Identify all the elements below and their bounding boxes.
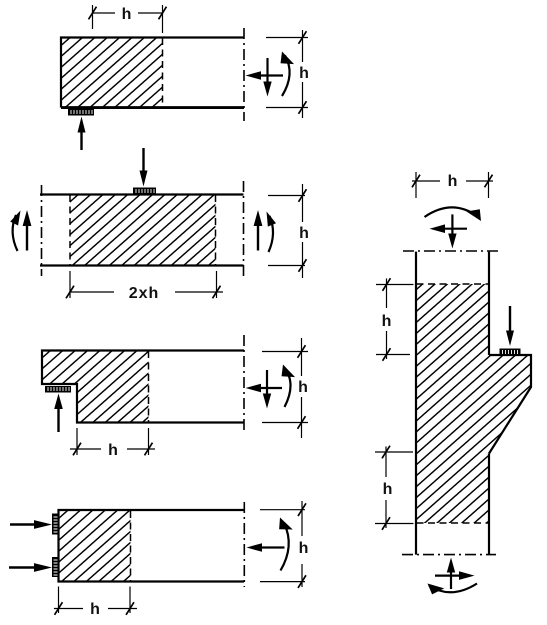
beam 2 load bearing pad	[133, 188, 156, 195]
beam 3 normal force arrow (down)	[266, 370, 268, 399]
beam 1 top dimension h: dimension line	[93, 12, 163, 14]
beam 4 bottom dimension h: ticks	[55, 602, 63, 615]
column top shear arrow (left)	[442, 228, 467, 230]
beam 3 D-region dashed boundary	[148, 351, 150, 422]
svg-text:h: h	[122, 6, 132, 23]
beam 4 right section dash-dot line	[243, 502, 245, 587]
beam 3 right dimension h: ticks	[298, 345, 306, 358]
beam 3 right dimension h: dimension line	[301, 338, 303, 438]
column top section dash-dot line	[403, 250, 499, 252]
column upper dimension h: ticks	[383, 278, 391, 291]
beam 2 right dimension h: dimension line	[302, 184, 304, 278]
beam 2 bottom dimension 2xh: dimension line	[70, 291, 223, 293]
beam 2 D-region dashed boundary left	[69, 195, 71, 265]
beam 2 outline top	[40, 193, 244, 195]
beam 4 right dimension h: dimension line	[301, 501, 303, 587]
corbel bearing pad	[500, 349, 521, 356]
beam 1 bearing pad	[68, 109, 94, 116]
beam 1 right dimension h: extension lines	[266, 38, 308, 108]
beam 1 hatched D-region	[62, 39, 162, 108]
beam 1 bearing pad ribs	[71, 110, 92, 114]
svg-text:h: h	[299, 225, 309, 242]
beam 1 bottom edge	[61, 106, 244, 109]
beam 4 bottom load arrow (right)	[9, 566, 39, 568]
svg-text:h: h	[299, 65, 309, 82]
column D-region dashed boundary top	[417, 283, 489, 285]
beam 3 bottom dimension h: extension lines	[77, 428, 149, 455]
beam 3 right dimension h: extension lines	[262, 352, 308, 423]
column top dimension h: dimension line	[412, 180, 493, 182]
beam 2 right section dash-dot line	[243, 181, 245, 280]
beam 2 right end shear arrow (up)	[257, 222, 259, 251]
column upper dimension h: extension lines	[376, 285, 414, 355]
column bottom normal force arrow (up)	[450, 568, 452, 589]
beam 3 moment curved arrow	[285, 369, 291, 407]
beam 3 bottom dimension h: ticks	[73, 443, 81, 456]
beam 4 bottom dimension h: extension lines	[59, 587, 131, 614]
beam 2 bottom dimension 2xh: ticks	[66, 286, 74, 299]
column bottom shear arrow (right)	[435, 574, 460, 576]
beam 1 right section dash-dot line	[243, 28, 245, 121]
svg-text:h: h	[90, 601, 100, 618]
beam 1 moment curved arrow	[282, 56, 290, 97]
column right edge upper	[488, 252, 490, 355]
column lower dimension h: ticks	[382, 446, 390, 459]
corbel outline	[489, 355, 531, 454]
beam 3 bearing pad ribs	[48, 387, 69, 391]
beam 1 top dimension h: tick left	[89, 7, 97, 20]
beam 2 outline bottom	[40, 264, 244, 266]
column lower dimension h: extension lines	[375, 452, 414, 524]
svg-text:h: h	[299, 540, 309, 557]
beam 4 anchor pad bottom ribs	[54, 560, 58, 575]
beam 3 shear arrow (left)	[258, 387, 282, 389]
beam 2 right dimension h: ticks	[299, 189, 307, 202]
corbel load arrow (down)	[509, 306, 511, 332]
column hatched D-region	[416, 284, 531, 523]
svg-text:h: h	[108, 442, 118, 459]
beam 2 D-region dashed boundary right	[215, 195, 217, 265]
beam 4 top load arrow (right)	[10, 523, 39, 525]
beam 2 left end moment curved arrow	[13, 215, 18, 251]
beam 3 hatched D-region	[42, 351, 149, 423]
beam 2 right dimension h: extension lines	[268, 196, 305, 266]
beam 4 anchor pad top ribs	[54, 517, 58, 532]
beam 1 support reaction arrow (up)	[80, 128, 82, 150]
beam 2 hatched D-region	[70, 196, 216, 266]
column left edge	[415, 252, 417, 555]
column D-region dashed boundary bottom	[417, 522, 489, 524]
beam 4 anchor pad top	[52, 514, 59, 535]
beam 1 shear arrow (left)	[258, 74, 283, 76]
svg-text:h: h	[383, 481, 393, 498]
column right edge lower	[488, 454, 490, 555]
beam 3 bottom dimension h: dimension line	[70, 448, 155, 450]
beam 4 right dimension h: extension lines	[260, 510, 305, 582]
beam 2 left end shear arrow (up)	[26, 222, 28, 251]
svg-text:h: h	[298, 379, 308, 396]
beam 1 right dimension h: dimension line	[302, 30, 304, 118]
beam 1 outline	[61, 38, 244, 108]
beam 2 right end moment curved arrow	[269, 216, 274, 252]
svg-text:h: h	[448, 173, 458, 190]
column upper dimension h: dimension line	[386, 279, 388, 360]
beam 4 reaction arrow (left)	[259, 546, 285, 548]
column bottom moment curved arrow	[429, 584, 477, 593]
beam 4 outline	[59, 510, 245, 582]
column top normal force arrow (down)	[451, 214, 453, 239]
beam 3 support reaction arrow (up)	[57, 405, 59, 432]
svg-text:h: h	[382, 313, 392, 330]
beam 2 load arrow (down)	[142, 148, 144, 173]
column lower dimension h: dimension line	[385, 447, 387, 529]
beam 3 right section dash-dot line	[243, 335, 245, 434]
column bottom section dash-dot line	[402, 554, 496, 556]
beam 2 bottom dimension 2xh: extension lines	[70, 271, 217, 298]
beam 1 top dimension h: tick right	[159, 7, 167, 20]
beam 1 top dimension h: extension lines	[92, 5, 94, 29]
beam 1 normal force arrow (down)	[266, 58, 268, 84]
column top moment curved arrow	[425, 207, 479, 217]
corbel bearing pad ribs	[503, 350, 518, 354]
beam 4 hatched D-region	[59, 511, 131, 581]
beam 1 D-region dashed boundary	[162, 38, 164, 107]
column top dimension h: extension lines	[416, 172, 489, 198]
beam 2 load pad ribs	[136, 189, 154, 193]
beam 2 left section dash-dot line	[41, 185, 43, 276]
column top dimension h: ticks	[412, 175, 420, 188]
beam 1 right dimension h: ticks	[299, 31, 307, 44]
beam 4 D-region dashed boundary	[130, 511, 132, 581]
beam 3 bearing pad	[45, 386, 71, 393]
beam 4 anchor pad bottom	[52, 557, 59, 577]
beam 4 bottom dimension h: dimension line	[54, 608, 137, 610]
beam 3 outline	[42, 351, 244, 423]
beam 4 moment curved arrow	[281, 523, 289, 571]
svg-text:2xh: 2xh	[129, 285, 160, 302]
beam 4 right dimension h: ticks	[298, 503, 306, 516]
